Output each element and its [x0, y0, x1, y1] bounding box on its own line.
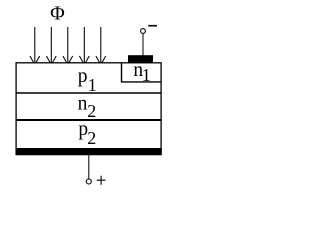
top electrode (cathode contact) [128, 55, 153, 63]
plus sign [97, 176, 106, 185]
wire to anode terminal [88, 155, 90, 179]
wire to cathode terminal [142, 34, 144, 56]
cathode terminal node [141, 29, 146, 34]
light arrow 5 [96, 27, 106, 65]
bottom electrode (anode contact) [16, 148, 162, 155]
svg-text:p: p [78, 66, 88, 87]
svg-text:1: 1 [88, 75, 97, 95]
svg-text:2: 2 [87, 101, 96, 121]
svg-text:n: n [78, 93, 88, 114]
minus sign [148, 25, 157, 27]
svg-text:2: 2 [87, 128, 96, 148]
p1/n2 junction line [16, 92, 161, 94]
light arrow 2 [46, 27, 56, 65]
n2/p2 junction line [16, 119, 161, 121]
device body outline [16, 63, 161, 155]
svg-text:1: 1 [142, 65, 151, 85]
n1 region box [122, 63, 162, 82]
svg-text:Φ: Φ [50, 2, 65, 24]
anode terminal node [86, 179, 91, 184]
light arrow 4 [79, 27, 89, 65]
light arrow 1 [30, 27, 40, 65]
light arrow 3 [63, 27, 73, 65]
